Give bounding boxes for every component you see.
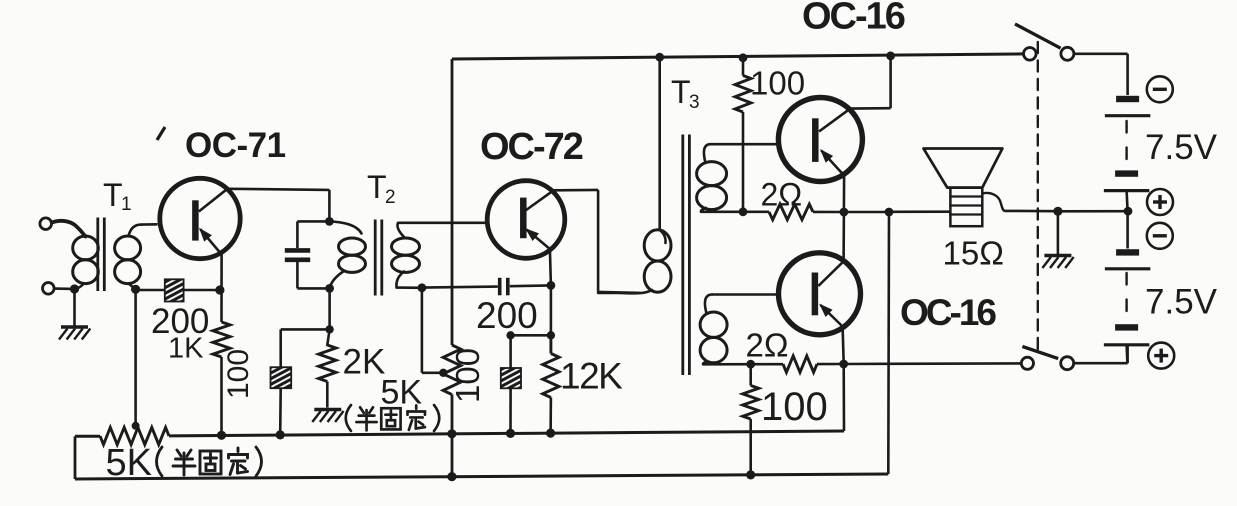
- svg-text:7.5V: 7.5V: [1145, 128, 1218, 167]
- svg-text:OC-72: OC-72: [480, 126, 583, 168]
- svg-text:2Ω: 2Ω: [761, 177, 803, 213]
- svg-text:12K: 12K: [560, 356, 623, 397]
- svg-text:T: T: [671, 74, 691, 110]
- svg-text:1: 1: [121, 194, 132, 215]
- svg-text:100: 100: [750, 65, 805, 102]
- svg-text:OC-71: OC-71: [185, 126, 286, 165]
- svg-text:2Ω: 2Ω: [746, 327, 789, 364]
- svg-text:7.5V: 7.5V: [1145, 283, 1218, 322]
- svg-text:5K: 5K: [106, 442, 152, 484]
- svg-text:3: 3: [689, 92, 700, 113]
- svg-text:100: 100: [761, 385, 828, 429]
- svg-text:100: 100: [222, 349, 255, 399]
- svg-text:15Ω: 15Ω: [943, 235, 1004, 272]
- svg-text:100: 100: [449, 348, 486, 403]
- svg-text:200: 200: [476, 295, 538, 336]
- svg-text:OC-16: OC-16: [900, 292, 996, 333]
- svg-text:OC-16: OC-16: [802, 0, 905, 38]
- svg-text:T: T: [367, 169, 387, 205]
- svg-text:2: 2: [385, 187, 396, 208]
- svg-text:2K: 2K: [343, 343, 386, 382]
- svg-text:1K: 1K: [168, 333, 204, 365]
- svg-text:T: T: [103, 177, 123, 213]
